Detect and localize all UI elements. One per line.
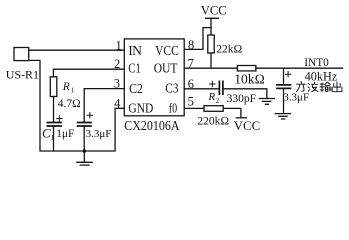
wire pin6 net (C3 pin) <box>184 88 219 90</box>
svg-text:f0: f0 <box>169 101 178 116</box>
ground symbol (right of 3.3uF) <box>275 114 290 119</box>
resistor R1 body <box>50 77 57 97</box>
wire cap to rail <box>83 126 85 151</box>
svg-text:3.3μF: 3.3μF <box>283 91 309 103</box>
svg-text:40kHz: 40kHz <box>305 69 338 83</box>
svg-text:5: 5 <box>188 95 194 109</box>
svg-text:4: 4 <box>114 96 121 110</box>
power VCC (bottom) symbol bar <box>236 117 246 119</box>
wire 220k to VCC <box>223 108 241 117</box>
svg-text:INT0: INT0 <box>304 57 329 69</box>
wire 22k to OUT line <box>210 53 212 68</box>
capacitor C1 plates <box>47 123 61 127</box>
svg-text:C: C <box>42 126 51 141</box>
ultrasonic receiver US-R1 body <box>14 48 29 61</box>
wire 3.3uF branch (right) <box>283 68 285 84</box>
capacitor 330pF plates <box>219 81 223 94</box>
capacitor 3.3uF (right) plates <box>277 85 291 89</box>
svg-text:VCC: VCC <box>234 119 260 133</box>
wire pin2 net (C1 pin to R1) <box>53 69 124 77</box>
resistor 22k body <box>208 35 214 53</box>
node junction dot on ground rail <box>83 149 87 153</box>
wire R1 to C1 <box>53 97 55 122</box>
svg-text:C1: C1 <box>128 60 141 75</box>
svg-text:1: 1 <box>51 134 55 142</box>
label square-wave-output chinese characters <box>297 81 342 92</box>
plus sign of C1 <box>57 116 62 121</box>
ground symbol (bottom) <box>77 151 92 165</box>
svg-text:IN: IN <box>128 43 142 58</box>
wire C1 to rail <box>53 126 55 151</box>
label R1 designator <box>62 81 75 95</box>
wire pin5 f0 net <box>184 107 204 109</box>
svg-text:R: R <box>207 91 215 103</box>
svg-text:C2: C2 <box>129 81 143 96</box>
resistor 10k body <box>237 66 256 71</box>
op-amp IC U1 CX20106A body <box>124 39 184 116</box>
svg-text:US-R1: US-R1 <box>6 67 39 81</box>
svg-text:4.7Ω: 4.7Ω <box>58 98 81 110</box>
wire right 3.3uF to ground <box>283 88 285 113</box>
wire OUT line to INT0 <box>256 67 343 69</box>
svg-text:8: 8 <box>188 38 194 52</box>
svg-text:VCC: VCC <box>201 4 227 18</box>
resistor R2 220k body <box>204 106 223 112</box>
svg-text:1: 1 <box>116 38 122 52</box>
wire 330pF to ground <box>223 89 267 98</box>
svg-text:10kΩ: 10kΩ <box>234 71 265 86</box>
plus sign of 330pF <box>210 81 215 86</box>
svg-text:3: 3 <box>114 77 120 91</box>
wire pin3 net (C2 pin to cap) <box>84 89 124 122</box>
label R2 designator <box>207 91 219 105</box>
svg-text:1μF: 1μF <box>56 128 74 140</box>
svg-text:2: 2 <box>216 97 220 105</box>
svg-text:3.3μF: 3.3μF <box>86 128 112 140</box>
svg-text:1: 1 <box>71 87 75 95</box>
svg-text:CX20106A: CX20106A <box>124 118 179 133</box>
ground symbol (330pF) <box>259 99 274 105</box>
label C1 designator <box>42 126 55 142</box>
svg-text:6: 6 <box>188 77 194 91</box>
svg-text:7: 7 <box>188 56 194 70</box>
svg-text:GND: GND <box>128 101 153 116</box>
plus sign of left 3.3uF <box>87 113 92 118</box>
wire US-R1 ground / bottom rail / pin4 GND riser <box>29 60 125 151</box>
svg-text:2: 2 <box>114 57 120 71</box>
svg-text:22kΩ: 22kΩ <box>216 44 242 56</box>
power VCC (top) symbol bar <box>206 18 219 35</box>
wire pin7 OUT net <box>184 67 237 69</box>
svg-text:C3: C3 <box>165 80 178 95</box>
wire pin8 net (VCC jog) <box>184 28 211 50</box>
svg-text:R: R <box>62 81 70 93</box>
wire pin1 net (US-R1 to IN) <box>29 49 125 51</box>
capacitor 3.3uF (left) plates <box>78 123 91 127</box>
svg-text:330pF: 330pF <box>227 93 256 105</box>
plus sign of right 3.3uF <box>285 72 290 77</box>
svg-text:VCC: VCC <box>155 43 179 58</box>
svg-text:OUT: OUT <box>154 60 178 75</box>
svg-text:220kΩ: 220kΩ <box>197 115 229 127</box>
